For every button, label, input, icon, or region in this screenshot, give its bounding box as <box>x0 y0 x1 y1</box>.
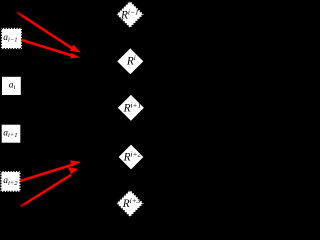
node a_{i+2} (dashed box) <box>1 171 21 192</box>
red arrow A: steep arrow from upper-left (fading tail) <box>17 12 81 52</box>
node a_{i+1} (solid box) <box>1 124 21 143</box>
node R^{i-1} (dashed diamond) <box>116 1 143 28</box>
red arrow B: shallow arrow from right edge of a_{i-1} <box>22 40 80 59</box>
node R^i (solid diamond) <box>117 48 144 75</box>
red arrow C: shallow arrow from right edge of a_{i+2} <box>20 160 81 181</box>
node R^{i+1} (solid diamond) <box>117 94 144 121</box>
node a_i (solid box) <box>2 76 22 95</box>
node R^{i+2} (solid diamond) <box>118 144 144 170</box>
node R^{i+3} (dashed diamond) <box>116 190 143 217</box>
red arrow D: steep arrow from lower-left (fading tail) <box>21 167 79 207</box>
node a_{i-1} (dashed box) <box>1 28 22 49</box>
